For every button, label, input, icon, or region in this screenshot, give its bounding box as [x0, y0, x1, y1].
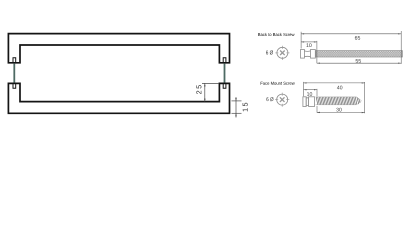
6 dia label: [266, 97, 273, 101]
right connecting screw (teal): [224, 64, 226, 83]
dimension 55 (screw 1 shaft): [317, 62, 401, 64]
screw 2 threaded shaft with point: [316, 97, 362, 105]
dimension 10 (screw 2 head): [304, 89, 318, 96]
upper handle outline: [8, 34, 229, 63]
screw 1 threaded rod: [316, 51, 403, 57]
dimension 65: [301, 31, 401, 64]
dimension 30 (screw 2 shaft): [317, 106, 365, 113]
screw head front view circle: [275, 46, 289, 60]
upper handle left screw boss notch: [13, 58, 16, 63]
dimension 10 (screw 1 head): [301, 41, 317, 63]
label: [258, 33, 294, 36]
dimension text 55: [356, 59, 361, 63]
dimension text 15: [243, 103, 248, 112]
screw head front view circle: [275, 93, 289, 107]
upper handle right screw boss notch: [223, 58, 226, 63]
dimension text 25: [196, 85, 201, 94]
6 dia label: [266, 50, 273, 54]
dimension text 40: [337, 86, 342, 90]
screw 1 side view head: [301, 50, 316, 59]
left connecting screw (teal): [13, 64, 15, 83]
dimension 40: [304, 82, 365, 113]
lower handle outline: [8, 83, 229, 113]
dimension 15: [232, 97, 242, 117]
dimension text 10 (screw 1 head): [306, 43, 311, 47]
lower handle right screw boss notch: [223, 84, 226, 89]
dimension text 65: [355, 36, 360, 40]
dimension text 10 (screw 2 head): [307, 92, 312, 96]
screw 2 side view head: [303, 97, 315, 107]
dimension text 30: [336, 108, 341, 112]
label: [261, 82, 295, 85]
lower handle left screw boss notch: [13, 84, 16, 89]
dimension 25: [202, 83, 219, 101]
